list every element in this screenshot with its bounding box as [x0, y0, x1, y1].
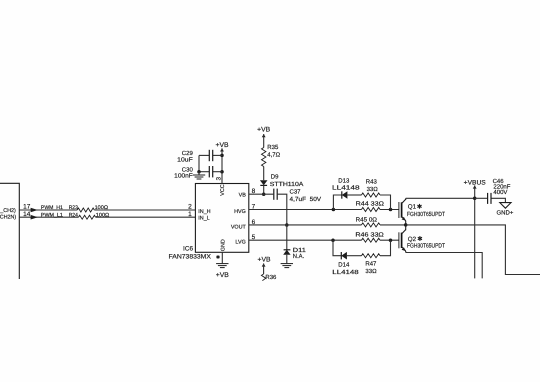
svg-text:4,7Ω: 4,7Ω — [267, 151, 280, 158]
wire pin6 VOUT — [249, 224, 362, 226]
svg-text:STTH110A: STTH110A — [270, 181, 304, 188]
wire R35 to D9 — [263, 167, 265, 181]
node LVG branch left — [331, 238, 335, 242]
svg-text:33Ω: 33Ω — [367, 186, 379, 193]
transistor Q1 FGH30T65UPDT — [398, 202, 400, 218]
wire C37 to VOUT net — [278, 194, 287, 225]
wire Q2 emitter — [406, 253, 483, 279]
wire D9 to VB node — [263, 185, 265, 194]
wire R23 to IN_H pin2 — [94, 209, 195, 211]
connector J? left edge — [0, 183, 19, 279]
svg-text:FAN73833MX: FAN73833MX — [169, 254, 212, 261]
svg-text:C29: C29 — [182, 150, 194, 157]
svg-text:R45 0Ω: R45 0Ω — [356, 216, 378, 223]
node +VBUS/C46 — [473, 197, 477, 201]
node VCC/C29 — [220, 154, 224, 158]
svg-text:_CH2N): _CH2N) — [0, 215, 16, 221]
node midpoint — [404, 223, 408, 227]
svg-text:LVG: LVG — [235, 240, 245, 246]
svg-text:+VB: +VB — [257, 126, 271, 133]
svg-text:400V: 400V — [493, 189, 507, 196]
svg-text:2: 2 — [188, 203, 192, 210]
node VB pin8 — [262, 192, 266, 196]
svg-text:FGH30T65UPDT: FGH30T65UPDT — [407, 211, 445, 218]
wire R45 to half-bridge midpoint — [380, 224, 406, 226]
wire PWM_L1 from pin14 to R24 — [19, 216, 78, 218]
svg-text:GND: GND — [220, 239, 226, 251]
svg-text:FGH30T65UPDT: FGH30T65UPDT — [407, 243, 445, 250]
svg-text:R46 33Ω: R46 33Ω — [355, 231, 384, 238]
svg-text:R43: R43 — [366, 178, 378, 185]
svg-text:HVG: HVG — [234, 209, 246, 215]
ground under C30 — [198, 172, 200, 175]
svg-text:IC6: IC6 — [183, 245, 193, 252]
pin 4 asterisk — [217, 255, 219, 259]
node Q2 gate — [389, 238, 393, 242]
svg-text:33Ω: 33Ω — [365, 268, 377, 275]
node HVG branch left — [332, 208, 336, 212]
wire +VB to R35 — [263, 134, 265, 148]
wire Q1 collector to +VBUS — [406, 197, 475, 199]
svg-text:N.A.: N.A. — [293, 253, 305, 260]
svg-text:LL4148: LL4148 — [332, 269, 359, 276]
signal arrow PWM_H1 — [31, 208, 38, 213]
svg-text:D11: D11 — [293, 247, 307, 254]
svg-text:+VB: +VB — [216, 272, 230, 279]
wire R46 to Q2 gate — [380, 239, 399, 241]
node VOUT/C37 — [285, 223, 289, 227]
signal arrow PWM_L1 — [31, 215, 38, 220]
wire C29-C30 left rail — [198, 155, 200, 171]
wire pin8 VB — [249, 193, 273, 195]
ground IC6 GND — [216, 263, 228, 265]
svg-text:VB: VB — [239, 193, 247, 199]
svg-text:PWM_H1: PWM_H1 — [41, 205, 63, 211]
svg-text:IN_L: IN_L — [198, 215, 209, 221]
svg-text:+VB: +VB — [215, 142, 229, 149]
wire HVG parallel branch — [333, 195, 341, 210]
node left rail — [197, 170, 201, 174]
svg-text:VCC: VCC — [220, 184, 226, 195]
svg-text:C30: C30 — [182, 166, 194, 173]
wire +VBUS rail — [474, 185, 476, 278]
wire GND pin stub — [221, 252, 223, 263]
svg-text:R35: R35 — [267, 144, 279, 151]
svg-text:4,7uF 50V: 4,7uF 50V — [290, 196, 322, 203]
svg-text:GND+: GND+ — [497, 209, 514, 216]
svg-text:R24: R24 — [69, 212, 78, 218]
wire LVG parallel branch — [333, 240, 341, 256]
svg-text:D9: D9 — [271, 174, 279, 181]
svg-text:100nF: 100nF — [174, 173, 193, 180]
svg-text:+VB: +VB — [257, 257, 271, 264]
svg-text:_CH2): _CH2) — [0, 208, 16, 214]
svg-text:D14: D14 — [338, 262, 350, 269]
wire midpoint to output — [406, 225, 540, 275]
wire R24 to IN_L pin1 — [96, 216, 196, 218]
svg-text:Q2: Q2 — [408, 236, 417, 243]
ground under D11 — [281, 263, 293, 265]
wire pin7 HVG — [249, 209, 362, 211]
ground GND+ — [500, 203, 511, 209]
wire R44 to Q1 gate — [380, 209, 399, 211]
svg-text:LL4148: LL4148 — [332, 184, 361, 191]
svg-text:R44 33Ω: R44 33Ω — [356, 201, 385, 208]
svg-text:10uF: 10uF — [177, 157, 193, 164]
svg-text:VOUT: VOUT — [231, 224, 247, 230]
svg-text:D13: D13 — [338, 178, 350, 185]
svg-text:PWM_L1: PWM_L1 — [41, 212, 63, 218]
svg-text:+VBUS: +VBUS — [464, 179, 486, 186]
svg-text:C37: C37 — [290, 188, 302, 195]
svg-text:R23: R23 — [69, 205, 78, 211]
svg-text:R36: R36 — [265, 274, 277, 281]
op-amp driver IC6 FAN73833MX body — [195, 184, 248, 253]
svg-text:Q1: Q1 — [408, 204, 417, 211]
svg-text:1: 1 — [188, 211, 192, 218]
node VCC/C30 — [220, 170, 224, 174]
node Q1 gate — [389, 208, 393, 212]
wire pin5 LVG — [249, 239, 362, 241]
wire VOUT node down to D11 — [286, 225, 288, 250]
transistor Q2 FGH30T65UPDT — [398, 232, 400, 248]
svg-text:R47: R47 — [365, 261, 377, 268]
wire PWM_H1 from pin17 to R23 — [19, 209, 77, 211]
wire VCC rail — [221, 148, 223, 183]
svg-text:IN_H: IN_H — [198, 209, 210, 215]
